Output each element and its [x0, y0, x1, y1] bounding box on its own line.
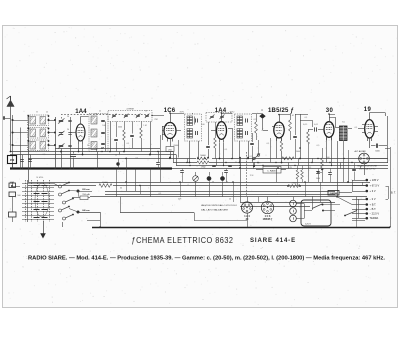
- svg-text:RADIO SIARE. — Mod. 414-E. — P: RADIO SIARE. — Mod. 414-E. — Produzione …: [28, 255, 386, 261]
- svg-text:50: 50: [115, 155, 117, 157]
- svg-text:+ B.T.: + B.T.: [370, 203, 377, 207]
- svg-text:VALVOLE VISTE DALLO ZOCCOLO: VALVOLE VISTE DALLO ZOCCOLO: [201, 204, 237, 207]
- svg-text:0,1: 0,1: [159, 193, 162, 195]
- svg-text:50000: 50000: [200, 155, 206, 157]
- svg-text:5000: 5000: [118, 127, 122, 129]
- svg-text:0,5: 0,5: [317, 145, 320, 147]
- svg-text:ƒCHEMA ELETTRICO 8632: ƒCHEMA ELETTRICO 8632: [132, 236, 234, 245]
- svg-text:25: 25: [87, 145, 89, 147]
- svg-text:500: 500: [17, 195, 20, 197]
- svg-text:– 3 V: – 3 V: [370, 197, 376, 201]
- svg-text:0,1: 0,1: [136, 158, 139, 160]
- svg-text:0,1: 0,1: [309, 167, 312, 169]
- svg-text:– B.T.: – B.T.: [370, 207, 377, 211]
- svg-text:500: 500: [326, 157, 329, 159]
- svg-text:1 M: 1 M: [143, 125, 147, 127]
- svg-text:P.U.: P.U.: [250, 175, 254, 177]
- svg-text:+ 3 V: + 3 V: [370, 189, 376, 193]
- svg-text:TELAIO RICEVITORE: TELAIO RICEVITORE: [357, 165, 378, 168]
- svg-text:240 mm: 240 mm: [82, 209, 90, 212]
- svg-text:1B5/25 ƒ: 1B5/25 ƒ: [263, 218, 273, 221]
- svg-text:1 MΩ: 1 MΩ: [201, 166, 206, 168]
- svg-text:20: 20: [229, 199, 231, 201]
- svg-text:5000: 5000: [296, 151, 300, 153]
- svg-text:125 V: 125 V: [305, 224, 311, 226]
- svg-text:+ 67,5 V: + 67,5 V: [370, 184, 380, 188]
- svg-text:OSC: OSC: [94, 114, 99, 116]
- svg-text:1 M: 1 M: [290, 115, 294, 117]
- svg-text:0,5: 0,5: [250, 156, 253, 158]
- svg-text:19: 19: [364, 107, 372, 113]
- svg-text:5000: 5000: [316, 178, 320, 180]
- svg-text:DAL LATO SALDATURE: DAL LATO SALDATURE: [201, 209, 229, 212]
- svg-text:20000: 20000: [173, 145, 178, 147]
- svg-text:220 mm: 220 mm: [82, 189, 90, 191]
- svg-text:S. VOL.: S. VOL.: [36, 177, 44, 179]
- svg-text:GAMME: GAMME: [330, 192, 338, 195]
- svg-text:A.F.: A.F.: [178, 198, 182, 201]
- svg-text:M.F.1: M.F.1: [180, 112, 185, 114]
- svg-text:ALT. ALPAR: ALT. ALPAR: [354, 150, 366, 153]
- svg-text:15000: 15000: [102, 182, 108, 184]
- svg-text:T.U.: T.U.: [342, 122, 346, 124]
- svg-text:0,1: 0,1: [267, 143, 270, 145]
- svg-text:0,1: 0,1: [225, 149, 228, 151]
- svg-text:TERRA: TERRA: [370, 216, 379, 220]
- svg-text:VISTO DA SOTTO: VISTO DA SOTTO: [359, 168, 376, 171]
- svg-text:SIARE 414-E: SIARE 414-E: [250, 237, 296, 244]
- svg-text:0,01: 0,01: [303, 124, 307, 126]
- svg-text:– 22,5 V: – 22,5 V: [370, 212, 380, 216]
- svg-text:60: 60: [120, 188, 122, 190]
- svg-text:2 MΩ: 2 MΩ: [292, 183, 297, 185]
- svg-text:100: 100: [102, 125, 105, 127]
- svg-text:0,5: 0,5: [43, 154, 46, 156]
- svg-text:C. RADIO: C. RADIO: [267, 169, 277, 172]
- svg-text:0,25: 0,25: [288, 167, 292, 169]
- svg-text:0,5: 0,5: [254, 119, 257, 121]
- svg-text:1A4: 1A4: [75, 109, 87, 115]
- svg-text:50: 50: [212, 182, 214, 184]
- svg-text:30: 30: [326, 108, 334, 114]
- svg-text:B. T.: B. T.: [391, 192, 396, 195]
- svg-text:150: 150: [10, 158, 15, 162]
- svg-text:4 TRIM: 4 TRIM: [126, 109, 133, 111]
- svg-text:0,1: 0,1: [305, 117, 308, 119]
- svg-text:M.F.2: M.F.2: [230, 112, 235, 114]
- svg-text:20: 20: [67, 129, 69, 131]
- svg-text:250: 250: [154, 119, 157, 121]
- svg-text:0,1: 0,1: [355, 127, 358, 129]
- svg-text:20: 20: [67, 116, 69, 118]
- svg-text:+ 135 V: + 135 V: [370, 178, 379, 182]
- svg-text:0,1: 0,1: [127, 143, 130, 145]
- svg-text:100: 100: [201, 124, 204, 126]
- svg-text:50: 50: [235, 162, 237, 164]
- svg-text:0,01: 0,01: [314, 124, 318, 126]
